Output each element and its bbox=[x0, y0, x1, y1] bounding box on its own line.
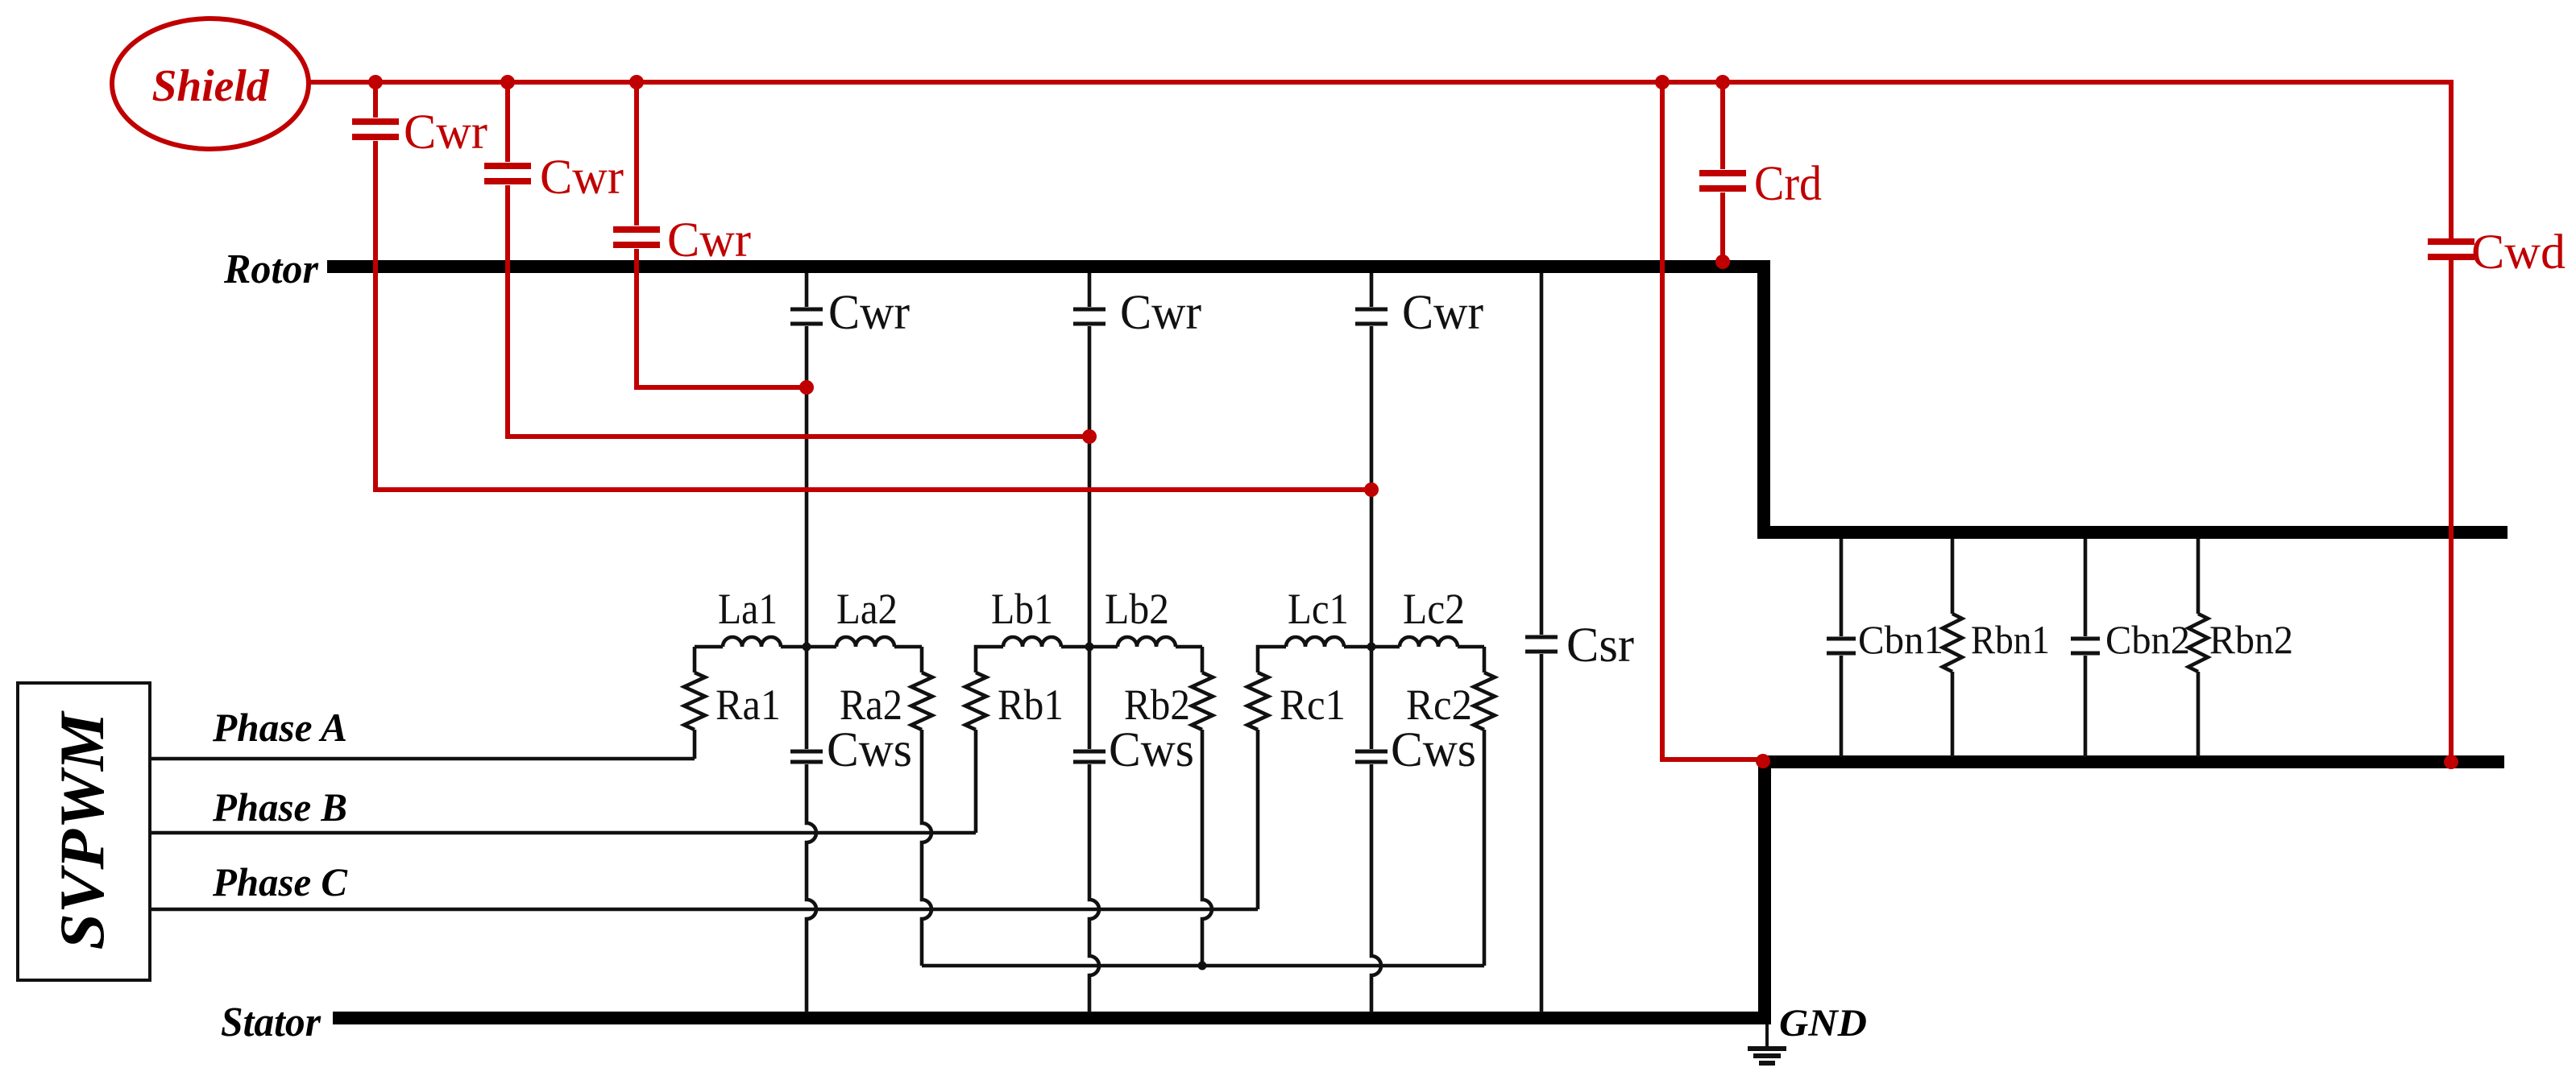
svg-text:Rbn1: Rbn1 bbox=[1971, 617, 2050, 662]
svg-text:Cws: Cws bbox=[1109, 723, 1194, 777]
node junction dot 4 on shield bus bbox=[1655, 75, 1670, 89]
wire winding C left riser bbox=[1256, 730, 1260, 909]
svg-text:GND: GND bbox=[1779, 1002, 1867, 1045]
svg-text:Shield: Shield bbox=[152, 61, 270, 111]
wire Rc1 stub top bbox=[1258, 647, 1286, 672]
wire Csr vertical lower bbox=[1540, 654, 1544, 1012]
resistor Ra2 bbox=[911, 672, 932, 730]
resistor Rc1 bbox=[1247, 672, 1268, 730]
wire winding C top mid bbox=[1344, 645, 1400, 649]
wire shield drop 2 bbox=[505, 82, 510, 162]
inductor Lb2 bbox=[1118, 637, 1176, 647]
wire Rbn1 vertical upper bbox=[1951, 539, 1955, 614]
wire Ra1 stub bottom bbox=[693, 730, 697, 759]
svg-text:Rc1: Rc1 bbox=[1280, 681, 1346, 729]
wire winding neutral link bbox=[922, 964, 1484, 968]
svg-text:Cwr: Cwr bbox=[828, 286, 910, 340]
svg-text:Ra1: Ra1 bbox=[716, 681, 781, 729]
resistor Ra1 bbox=[684, 672, 705, 730]
wire shield drop 3 lower + run to phase A node bbox=[637, 249, 804, 387]
ground GND bbox=[1765, 1024, 1769, 1047]
wire shield drop 3 bbox=[634, 82, 639, 226]
capacitor Crd bbox=[1699, 170, 1746, 176]
wire shield drop 5 upper bbox=[1720, 82, 1725, 169]
wire Rbn1 vertical lower bbox=[1951, 672, 1955, 757]
node junction dot 3 on shield bus bbox=[629, 75, 644, 89]
capacitor Cbn2 bbox=[2071, 637, 2100, 641]
resistor Rb2 bbox=[1192, 672, 1213, 730]
wire Phase A feed bbox=[150, 757, 695, 761]
wire Rbn2 vertical upper bbox=[2196, 539, 2201, 614]
wire Rb1 stub top bbox=[976, 647, 1003, 672]
wire shield drop 4 to neutral bus bbox=[1662, 82, 1761, 759]
svg-text:Cws: Cws bbox=[827, 723, 912, 777]
shield node (ellipse) bbox=[112, 19, 309, 149]
wire phase C mid vertical bbox=[1370, 326, 1374, 749]
capacitor Cwr C (winding-rotor) bbox=[1355, 308, 1388, 312]
svg-text:Phase A: Phase A bbox=[212, 705, 347, 750]
wire phase C mid vertical lower bbox=[1371, 764, 1381, 1012]
node dot Cwd-bus bbox=[2444, 755, 2458, 769]
svg-text:Cwr: Cwr bbox=[540, 151, 624, 205]
wire phase C mid vertical upper bbox=[1370, 273, 1374, 307]
svg-text:Lc2: Lc2 bbox=[1403, 585, 1465, 633]
capacitor Csr (stator-rotor) bbox=[1525, 635, 1558, 639]
SVPWM inverter box bbox=[18, 683, 150, 980]
wire winding A top mid bbox=[781, 645, 836, 649]
wire shield drop 6 upper (Cwd branch) bbox=[2449, 80, 2454, 238]
svg-text:Rbn2: Rbn2 bbox=[2209, 617, 2293, 662]
svg-text:La2: La2 bbox=[836, 585, 898, 633]
capacitor Cbn1 bbox=[1827, 637, 1856, 641]
wire phase B mid vertical lower bbox=[1089, 764, 1099, 1012]
wire shield drop 1 bbox=[373, 82, 378, 118]
wire shield drop 5 lower bbox=[1720, 192, 1725, 259]
resistor Rb1 bbox=[965, 672, 986, 730]
svg-text:Phase B: Phase B bbox=[212, 784, 347, 830]
wire Rc2 stub top bbox=[1483, 647, 1487, 672]
node junction dot 2 on shield bus bbox=[500, 75, 515, 89]
capacitor Cwr shield-1 bbox=[352, 118, 399, 125]
capacitor Cwr A (winding-rotor) bbox=[790, 308, 823, 312]
node dot red on neutral bus left bbox=[1756, 754, 1770, 768]
resistor Rbn2 bbox=[2188, 614, 2208, 672]
wire winding B right drop bbox=[1202, 730, 1212, 966]
wire phase B mid vertical upper bbox=[1088, 273, 1092, 307]
svg-text:Ra2: Ra2 bbox=[840, 681, 902, 729]
capacitor Cws A (winding-stator) bbox=[790, 750, 823, 754]
wire winding B left riser bbox=[974, 730, 978, 833]
wire Rbn2 vertical lower bbox=[2196, 672, 2201, 757]
inductor La1 bbox=[723, 637, 781, 647]
node junction dot B mid bbox=[1085, 643, 1094, 652]
wire Rb2 stub top bbox=[1201, 647, 1205, 672]
capacitor Cws C (winding-stator) bbox=[1355, 750, 1388, 754]
wire shield top bus bbox=[306, 80, 2451, 85]
wire Csr vertical upper bbox=[1540, 273, 1544, 635]
wire winding B top mid bbox=[1061, 645, 1118, 649]
svg-text:Lb1: Lb1 bbox=[991, 585, 1053, 633]
node junction dot C mid bbox=[1367, 643, 1376, 652]
wire Phase C feed bbox=[150, 908, 1258, 912]
wire phase A mid vertical upper bbox=[805, 273, 809, 307]
wire Ra1 stub top bbox=[693, 647, 697, 672]
svg-text:Crd: Crd bbox=[1754, 157, 1822, 211]
capacitor Cwr shield-2 bbox=[484, 163, 531, 169]
svg-text:Rotor: Rotor bbox=[223, 246, 319, 292]
svg-text:SVPWM: SVPWM bbox=[47, 710, 117, 950]
svg-text:Cwr: Cwr bbox=[667, 213, 751, 267]
neutral-side bus + ground drop + stator bus bbox=[333, 762, 2504, 1018]
wire winding A right drop bbox=[922, 730, 931, 966]
node dot on phase A winding mid bbox=[799, 380, 814, 395]
rotor bus + step to rotor-side bus bbox=[327, 267, 2508, 532]
capacitor Cwd bbox=[2428, 238, 2474, 245]
wire Cbn2 vertical upper bbox=[2084, 539, 2088, 636]
resistor Rc2 bbox=[1474, 672, 1495, 730]
svg-text:Cbn2: Cbn2 bbox=[2105, 617, 2190, 662]
svg-text:Cwr: Cwr bbox=[1120, 286, 1201, 340]
wire Phase B feed bbox=[150, 831, 976, 835]
svg-text:Csr: Csr bbox=[1566, 619, 1634, 672]
wire winding A top right bbox=[894, 645, 922, 649]
wire shield drop 1 lower + run to phase C node bbox=[375, 141, 1369, 490]
svg-text:Rb2: Rb2 bbox=[1124, 681, 1190, 729]
node dot on phase C winding mid bbox=[1364, 482, 1379, 497]
wire phase B mid vertical bbox=[1088, 326, 1092, 749]
svg-text:Rb1: Rb1 bbox=[998, 681, 1064, 729]
svg-text:La1: La1 bbox=[718, 585, 778, 633]
wire Cbn1 vertical lower bbox=[1840, 656, 1844, 757]
inductor La2 bbox=[836, 637, 894, 647]
wire shield drop 2 lower + run to phase B node bbox=[508, 185, 1087, 437]
wire phase A mid vertical bbox=[805, 326, 809, 749]
wire winding C right drop bbox=[1483, 730, 1487, 966]
wire shield drop 6 lower bbox=[2449, 260, 2454, 762]
wire winding C top right bbox=[1458, 645, 1484, 649]
resistor Rbn1 bbox=[1943, 614, 1962, 672]
node dot Crd-rotor bbox=[1715, 255, 1730, 269]
svg-text:Lc1: Lc1 bbox=[1288, 585, 1349, 633]
svg-text:Rc2: Rc2 bbox=[1406, 681, 1472, 729]
node junction dot neutral-B bbox=[1198, 962, 1207, 970]
wire phase A mid vertical lower bbox=[807, 764, 816, 1012]
svg-text:Phase C: Phase C bbox=[212, 859, 348, 904]
svg-text:Stator: Stator bbox=[221, 999, 321, 1045]
node junction dot 5 on shield bus bbox=[1715, 75, 1730, 89]
svg-text:Lb2: Lb2 bbox=[1105, 585, 1169, 633]
svg-text:Cwr: Cwr bbox=[1402, 286, 1483, 340]
wire Cbn2 vertical lower bbox=[2084, 656, 2088, 757]
node dot on phase B winding mid bbox=[1082, 429, 1097, 444]
inductor Lc1 bbox=[1286, 637, 1344, 647]
capacitor Cwr B (winding-rotor) bbox=[1073, 308, 1105, 312]
wire winding B top right bbox=[1176, 645, 1202, 649]
wire Cbn1 vertical upper bbox=[1840, 539, 1844, 636]
wire Ra2 stub top bbox=[920, 647, 924, 672]
wire winding A top bbox=[695, 645, 723, 649]
svg-text:Cws: Cws bbox=[1391, 723, 1476, 777]
inductor Lb1 bbox=[1003, 637, 1061, 647]
node junction dot 1 on shield bus bbox=[368, 75, 383, 89]
node junction dot A mid bbox=[803, 643, 811, 652]
inductor Lc2 bbox=[1400, 637, 1458, 647]
svg-text:Cwr: Cwr bbox=[404, 106, 487, 159]
svg-text:Cwd: Cwd bbox=[2471, 226, 2566, 279]
svg-text:Cbn1: Cbn1 bbox=[1858, 617, 1943, 662]
capacitor Cwr shield-3 bbox=[613, 226, 660, 233]
capacitor Cws B (winding-stator) bbox=[1073, 750, 1105, 754]
